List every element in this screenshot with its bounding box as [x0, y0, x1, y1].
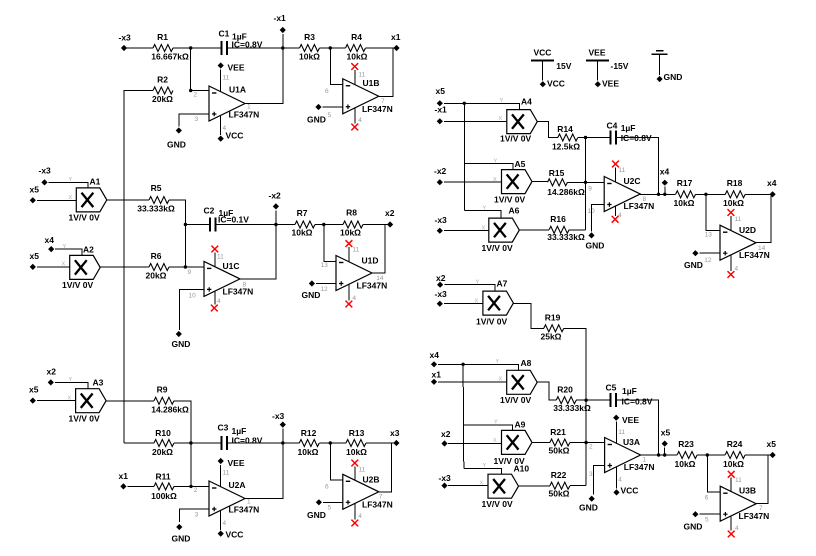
svg-text:C4: C4: [607, 121, 618, 131]
svg-text:3: 3: [589, 471, 593, 478]
pin 9: [588, 186, 592, 193]
svg-text:U1C: U1C: [223, 261, 240, 271]
multiplier A9: [494, 420, 533, 467]
multiplier A1: [69, 177, 107, 223]
wire C2 left: [185, 224, 210, 226]
svg-text:10kΩ: 10kΩ: [347, 52, 368, 62]
svg-text:5: 5: [705, 517, 709, 524]
pin X: [480, 481, 484, 487]
pin Y: [69, 377, 73, 383]
svg-text:11: 11: [217, 254, 224, 261]
node x5 A1: [30, 185, 40, 204]
resistor R3: [299, 32, 320, 62]
svg-text:R21: R21: [550, 427, 566, 437]
node -x3 A6: [435, 215, 448, 234]
svg-text:10kΩ: 10kΩ: [299, 52, 320, 62]
svg-text:-x1: -x1: [435, 105, 448, 115]
pin 11: [735, 216, 742, 223]
svg-text:x2: x2: [385, 208, 395, 218]
pin 3: [589, 471, 593, 478]
ground U2B: [307, 499, 343, 520]
wire U1D -input: [324, 225, 336, 262]
svg-text:R3: R3: [304, 32, 315, 42]
pin 4: [217, 298, 221, 305]
wire A8 X: [438, 381, 507, 383]
wire: [124, 47, 153, 49]
pin 13: [321, 262, 329, 269]
pin 8: [243, 282, 247, 289]
wire: [320, 46, 346, 49]
wire A4 out: [537, 121, 558, 137]
svg-text:GND: GND: [172, 534, 191, 544]
resistor R11: [151, 472, 177, 502]
svg-text:A10: A10: [514, 464, 530, 474]
pin 4: [223, 520, 227, 527]
svg-text:VEE: VEE: [602, 79, 619, 89]
svg-text:20kΩ: 20kΩ: [152, 94, 173, 104]
resistor R22: [549, 470, 570, 499]
pin X: [68, 396, 72, 402]
svg-text:3: 3: [195, 512, 199, 519]
pin 13: [705, 232, 713, 239]
node x2 A7: [436, 273, 446, 288]
svg-text:VCC: VCC: [547, 79, 565, 89]
svg-text:-15V: -15V: [611, 61, 629, 71]
svg-text:-x3: -x3: [439, 473, 452, 483]
power VCC U2A: [218, 510, 244, 539]
wire: [227, 441, 299, 444]
wire A7 Y: [444, 285, 495, 291]
svg-text:U2B: U2B: [363, 475, 380, 485]
wire R19 right bus: [564, 328, 588, 485]
ground U3A: [579, 496, 598, 513]
pin 14: [376, 275, 384, 282]
svg-text:11: 11: [618, 429, 625, 436]
svg-text:11: 11: [735, 477, 742, 484]
wire: [697, 453, 725, 456]
op-amp U3B: [720, 486, 769, 522]
svg-text:A2: A2: [83, 245, 94, 255]
pin 11: [735, 477, 742, 484]
svg-text:Y: Y: [494, 159, 498, 165]
svg-text:VEE: VEE: [622, 415, 639, 425]
svg-text:-x2: -x2: [434, 166, 447, 176]
svg-text:x5: x5: [767, 439, 777, 449]
wire U3A output: [641, 453, 678, 456]
pin 11: [223, 75, 230, 82]
pin 5: [328, 505, 332, 512]
svg-text:R23: R23: [678, 439, 694, 449]
pin Y: [63, 244, 67, 250]
svg-text:VCC: VCC: [226, 530, 244, 540]
svg-text:11: 11: [223, 75, 230, 82]
node -x2 A5: [434, 166, 447, 185]
svg-text:A9: A9: [515, 420, 526, 430]
wire A5 Y: [464, 164, 513, 170]
wire C4 right: [616, 138, 659, 195]
pin 12: [704, 257, 712, 264]
pin X: [493, 177, 497, 183]
svg-text:7: 7: [379, 494, 383, 501]
node x2 A9: [441, 429, 451, 447]
svg-text:15V: 15V: [556, 61, 571, 71]
svg-text:GND: GND: [172, 339, 191, 349]
no-connect X pin11 U1C: [211, 246, 218, 267]
op-amp U1D: [336, 256, 387, 291]
wire: [315, 223, 343, 226]
wire R5 to C2 node: [169, 200, 187, 269]
svg-text:R1: R1: [157, 32, 168, 42]
svg-text:14: 14: [758, 245, 766, 252]
resistor R4: [346, 32, 368, 62]
wire A7 X: [444, 303, 483, 305]
svg-text:x5: x5: [661, 428, 671, 438]
svg-text:4: 4: [618, 212, 622, 219]
svg-text:10kΩ: 10kΩ: [292, 228, 313, 238]
svg-text:GND: GND: [579, 503, 598, 513]
svg-text:4: 4: [618, 477, 622, 484]
ground U2A: [172, 524, 191, 544]
wire: [570, 485, 586, 487]
wire U2D output: [756, 194, 771, 242]
svg-text:Y: Y: [69, 377, 73, 383]
wire A2 out: [100, 266, 149, 268]
svg-text:VCC: VCC: [226, 130, 244, 140]
svg-text:4: 4: [735, 266, 739, 273]
svg-text:1V/V 0V: 1V/V 0V: [69, 414, 101, 424]
svg-text:LF347N: LF347N: [229, 505, 260, 515]
resistor R18: [723, 178, 745, 208]
svg-text:R22: R22: [551, 470, 567, 480]
wire Y bus lower: [462, 364, 465, 468]
wire U3B -input: [707, 455, 720, 492]
pin Y: [483, 206, 487, 212]
capacitor C2: [204, 206, 250, 232]
svg-text:R14: R14: [557, 124, 573, 134]
svg-text:14: 14: [376, 275, 384, 282]
svg-text:R11: R11: [155, 472, 170, 482]
svg-text:1V/V 0V: 1V/V 0V: [482, 499, 514, 509]
svg-text:R5: R5: [151, 183, 162, 193]
svg-text:10kΩ: 10kΩ: [723, 459, 744, 469]
node x4 A2: [45, 235, 55, 252]
svg-text:1V/V 0V: 1V/V 0V: [494, 195, 526, 205]
no-connect X pin4 U2D: [728, 254, 735, 278]
pin 11: [359, 72, 366, 79]
svg-text:-x1: -x1: [274, 13, 287, 23]
svg-text:R17: R17: [677, 178, 693, 188]
svg-text:x5: x5: [436, 86, 446, 96]
ground U3B: [684, 511, 721, 531]
svg-text:13: 13: [705, 232, 713, 239]
node x2 A3: [47, 367, 57, 386]
svg-text:1V/V 0V: 1V/V 0V: [482, 243, 514, 253]
pin Y: [500, 98, 504, 104]
wire -input bus U2C: [584, 138, 587, 230]
op-amp U2B: [343, 474, 393, 509]
power rail VCC: [531, 48, 572, 89]
resistor R7: [292, 208, 315, 238]
svg-text:x2: x2: [441, 429, 451, 439]
pin 14: [758, 245, 766, 252]
wire A7 out: [513, 303, 543, 328]
node -x3 A10: [439, 473, 452, 489]
svg-text:X: X: [69, 195, 73, 201]
svg-text:Y: Y: [483, 206, 487, 212]
svg-text:10kΩ: 10kΩ: [674, 198, 695, 208]
svg-text:11: 11: [619, 167, 626, 174]
svg-text:LF347N: LF347N: [739, 511, 770, 521]
no-connect X pin11 U1B: [351, 63, 358, 85]
svg-text:R16: R16: [550, 214, 566, 224]
svg-text:16.667kΩ: 16.667kΩ: [151, 52, 189, 62]
wire: [569, 229, 585, 231]
svg-text:A4: A4: [521, 97, 532, 107]
svg-text:Y: Y: [63, 244, 67, 250]
resistor R24: [723, 439, 745, 469]
svg-text:LF347N: LF347N: [229, 110, 260, 120]
wire A6 out: [519, 229, 549, 231]
wire U3A +input: [593, 466, 604, 495]
svg-text:R13: R13: [349, 428, 365, 438]
svg-text:9: 9: [188, 269, 192, 276]
pin X: [475, 299, 479, 305]
wire A4 X: [444, 120, 507, 122]
svg-text:A8: A8: [521, 358, 532, 368]
pin 5: [705, 517, 709, 524]
svg-text:A1: A1: [90, 177, 101, 187]
svg-text:C3: C3: [218, 423, 229, 433]
wire U2C +input: [592, 205, 605, 232]
wire A10 X: [448, 485, 488, 487]
resistor R21: [549, 427, 570, 456]
node x5 out: [767, 439, 777, 458]
svg-text:R7: R7: [297, 208, 308, 218]
wire U1A output: [245, 48, 283, 104]
svg-text:U1D: U1D: [362, 256, 379, 266]
wire R6 to U1C: [169, 266, 204, 268]
pin 6: [325, 484, 329, 491]
wire A1 X: [37, 199, 76, 201]
no-connect X pin11 U2D: [728, 209, 735, 231]
wire U2B -input: [330, 443, 343, 480]
svg-text:2: 2: [194, 92, 198, 99]
svg-text:5: 5: [328, 112, 332, 119]
svg-text:U2A: U2A: [229, 480, 246, 490]
wire: [570, 442, 605, 444]
svg-text:x4: x4: [767, 178, 777, 188]
pin 1: [247, 104, 251, 111]
wire A8 out: [537, 382, 556, 400]
no-connect X pin4 U2C: [612, 205, 619, 222]
svg-text:R9: R9: [157, 385, 168, 395]
pin 4: [618, 477, 622, 484]
pin 4: [358, 513, 362, 520]
svg-text:8: 8: [643, 196, 647, 203]
svg-text:6: 6: [325, 88, 329, 95]
svg-text:GND: GND: [664, 72, 683, 82]
wire A1 Y: [49, 182, 88, 188]
no-connect X pin11 U3B: [728, 471, 735, 492]
op-amp U2D: [720, 225, 770, 260]
svg-text:U2C: U2C: [624, 176, 641, 186]
svg-text:x1: x1: [432, 370, 442, 380]
wire A3 out: [106, 400, 154, 402]
pin Y: [496, 359, 500, 365]
svg-text:4: 4: [223, 520, 227, 527]
svg-text:1V/V 0V: 1V/V 0V: [476, 317, 508, 327]
node x3: [390, 428, 400, 446]
svg-text:1µF: 1µF: [232, 426, 247, 436]
svg-text:10kΩ: 10kΩ: [340, 228, 361, 238]
wire R9 to R10 junction: [174, 401, 191, 443]
pin 1: [247, 499, 251, 506]
power rail GND: [652, 51, 683, 82]
op-amp U3A: [605, 437, 655, 473]
wire R1-R2 junction: [189, 48, 209, 92]
svg-text:x1: x1: [119, 471, 129, 481]
pin 3: [195, 116, 199, 123]
power VEE U1A: [218, 62, 245, 91]
svg-text:LF347N: LF347N: [357, 281, 388, 291]
pin 11: [223, 470, 230, 477]
svg-text:X: X: [68, 396, 72, 402]
resistor R2: [152, 75, 173, 105]
wire U1D output: [372, 225, 385, 274]
node -x1 A4: [435, 105, 448, 125]
wire A10 out: [519, 485, 550, 487]
svg-text:x4: x4: [45, 235, 55, 245]
resistor R5: [137, 183, 175, 214]
svg-text:-x3: -x3: [119, 33, 132, 43]
pin 3: [195, 512, 199, 519]
op-amp U1A: [209, 85, 259, 122]
svg-text:50kΩ: 50kΩ: [549, 489, 570, 499]
pin 4: [223, 125, 227, 132]
wire A9 X: [448, 443, 501, 445]
wire C5 right: [616, 400, 659, 455]
svg-text:R8: R8: [346, 208, 357, 218]
wire U2A +input: [179, 509, 209, 522]
svg-text:A5: A5: [515, 159, 526, 169]
svg-text:R12: R12: [301, 428, 317, 438]
svg-text:A3: A3: [93, 378, 104, 388]
svg-text:VEE: VEE: [228, 63, 245, 73]
svg-text:X: X: [499, 377, 503, 383]
wire A3 Y: [55, 382, 88, 388]
svg-text:8: 8: [243, 282, 247, 289]
pin 10: [588, 208, 596, 215]
ground U2D: [684, 250, 720, 270]
svg-text:11: 11: [359, 467, 366, 474]
resistor R6: [146, 251, 170, 281]
svg-text:1µF: 1µF: [621, 123, 636, 133]
wire A4 Y: [444, 102, 519, 110]
wire A5 out: [532, 181, 548, 183]
svg-text:A6: A6: [509, 206, 520, 216]
svg-text:20kΩ: 20kΩ: [152, 447, 173, 457]
wire A3 X: [37, 400, 76, 402]
pin 7: [759, 505, 763, 512]
node -x1: [274, 13, 287, 48]
node x5 A4: [436, 86, 446, 106]
no-connect X pin4 U2B: [351, 503, 358, 526]
svg-text:U1B: U1B: [363, 78, 380, 88]
pin 4: [618, 212, 622, 219]
wire: [578, 136, 611, 139]
wire U1C output: [240, 225, 276, 280]
op-amp U1B: [343, 78, 393, 114]
svg-text:4: 4: [352, 295, 356, 302]
svg-text:GND: GND: [307, 510, 326, 520]
resistor R13: [346, 428, 367, 457]
multiplier A3: [69, 378, 107, 424]
svg-text:14.286kΩ: 14.286kΩ: [547, 187, 585, 197]
svg-text:11: 11: [735, 216, 742, 223]
wire A1 out: [107, 199, 149, 201]
svg-text:4: 4: [358, 117, 362, 124]
resistor R15: [547, 168, 585, 197]
wire: [696, 193, 726, 196]
wire U2D -input: [706, 194, 720, 230]
wire U1B output: [379, 48, 393, 96]
node -x3: [119, 33, 132, 52]
svg-text:11: 11: [352, 247, 359, 254]
wire junction: [190, 443, 192, 486]
svg-text:X: X: [482, 226, 486, 232]
svg-text:Y: Y: [69, 177, 73, 183]
svg-text:-x3: -x3: [272, 411, 285, 421]
svg-text:4: 4: [735, 525, 739, 532]
resistor R8: [340, 208, 363, 238]
svg-text:U2D: U2D: [739, 225, 756, 235]
resistor R20: [553, 385, 591, 414]
pin 1: [643, 457, 647, 464]
pin 7: [381, 98, 385, 105]
wire A2 Y: [55, 249, 82, 255]
svg-text:33.333kΩ: 33.333kΩ: [553, 403, 591, 413]
svg-text:IC=0.1V: IC=0.1V: [218, 215, 249, 225]
svg-text:GND: GND: [684, 522, 703, 532]
svg-text:x5: x5: [29, 385, 39, 395]
node x5 mid: [661, 428, 671, 456]
svg-text:C2: C2: [204, 206, 215, 216]
svg-text:33.333kΩ: 33.333kΩ: [547, 232, 585, 242]
svg-text:100kΩ: 100kΩ: [151, 491, 177, 501]
wire: [745, 454, 773, 456]
svg-text:R24: R24: [727, 439, 743, 449]
pin X: [62, 262, 66, 268]
svg-text:X: X: [499, 116, 503, 122]
svg-text:11: 11: [223, 470, 230, 477]
svg-text:GND: GND: [167, 140, 186, 150]
node x5 A2: [30, 251, 40, 270]
pin 11: [359, 467, 366, 474]
svg-text:VEE: VEE: [228, 458, 245, 468]
svg-text:IC=0.8V: IC=0.8V: [232, 436, 263, 446]
svg-text:2: 2: [194, 487, 198, 494]
pin Y: [494, 159, 498, 165]
power VEE U3A: [613, 415, 639, 444]
svg-text:Y: Y: [483, 463, 487, 469]
svg-text:Y: Y: [496, 359, 500, 365]
op-amp U1C: [204, 261, 253, 297]
svg-text:x1: x1: [391, 32, 401, 42]
wire C2 right: [216, 223, 296, 226]
op-amp U2A: [209, 480, 259, 516]
wire: [128, 485, 155, 487]
svg-text:6: 6: [325, 484, 329, 491]
